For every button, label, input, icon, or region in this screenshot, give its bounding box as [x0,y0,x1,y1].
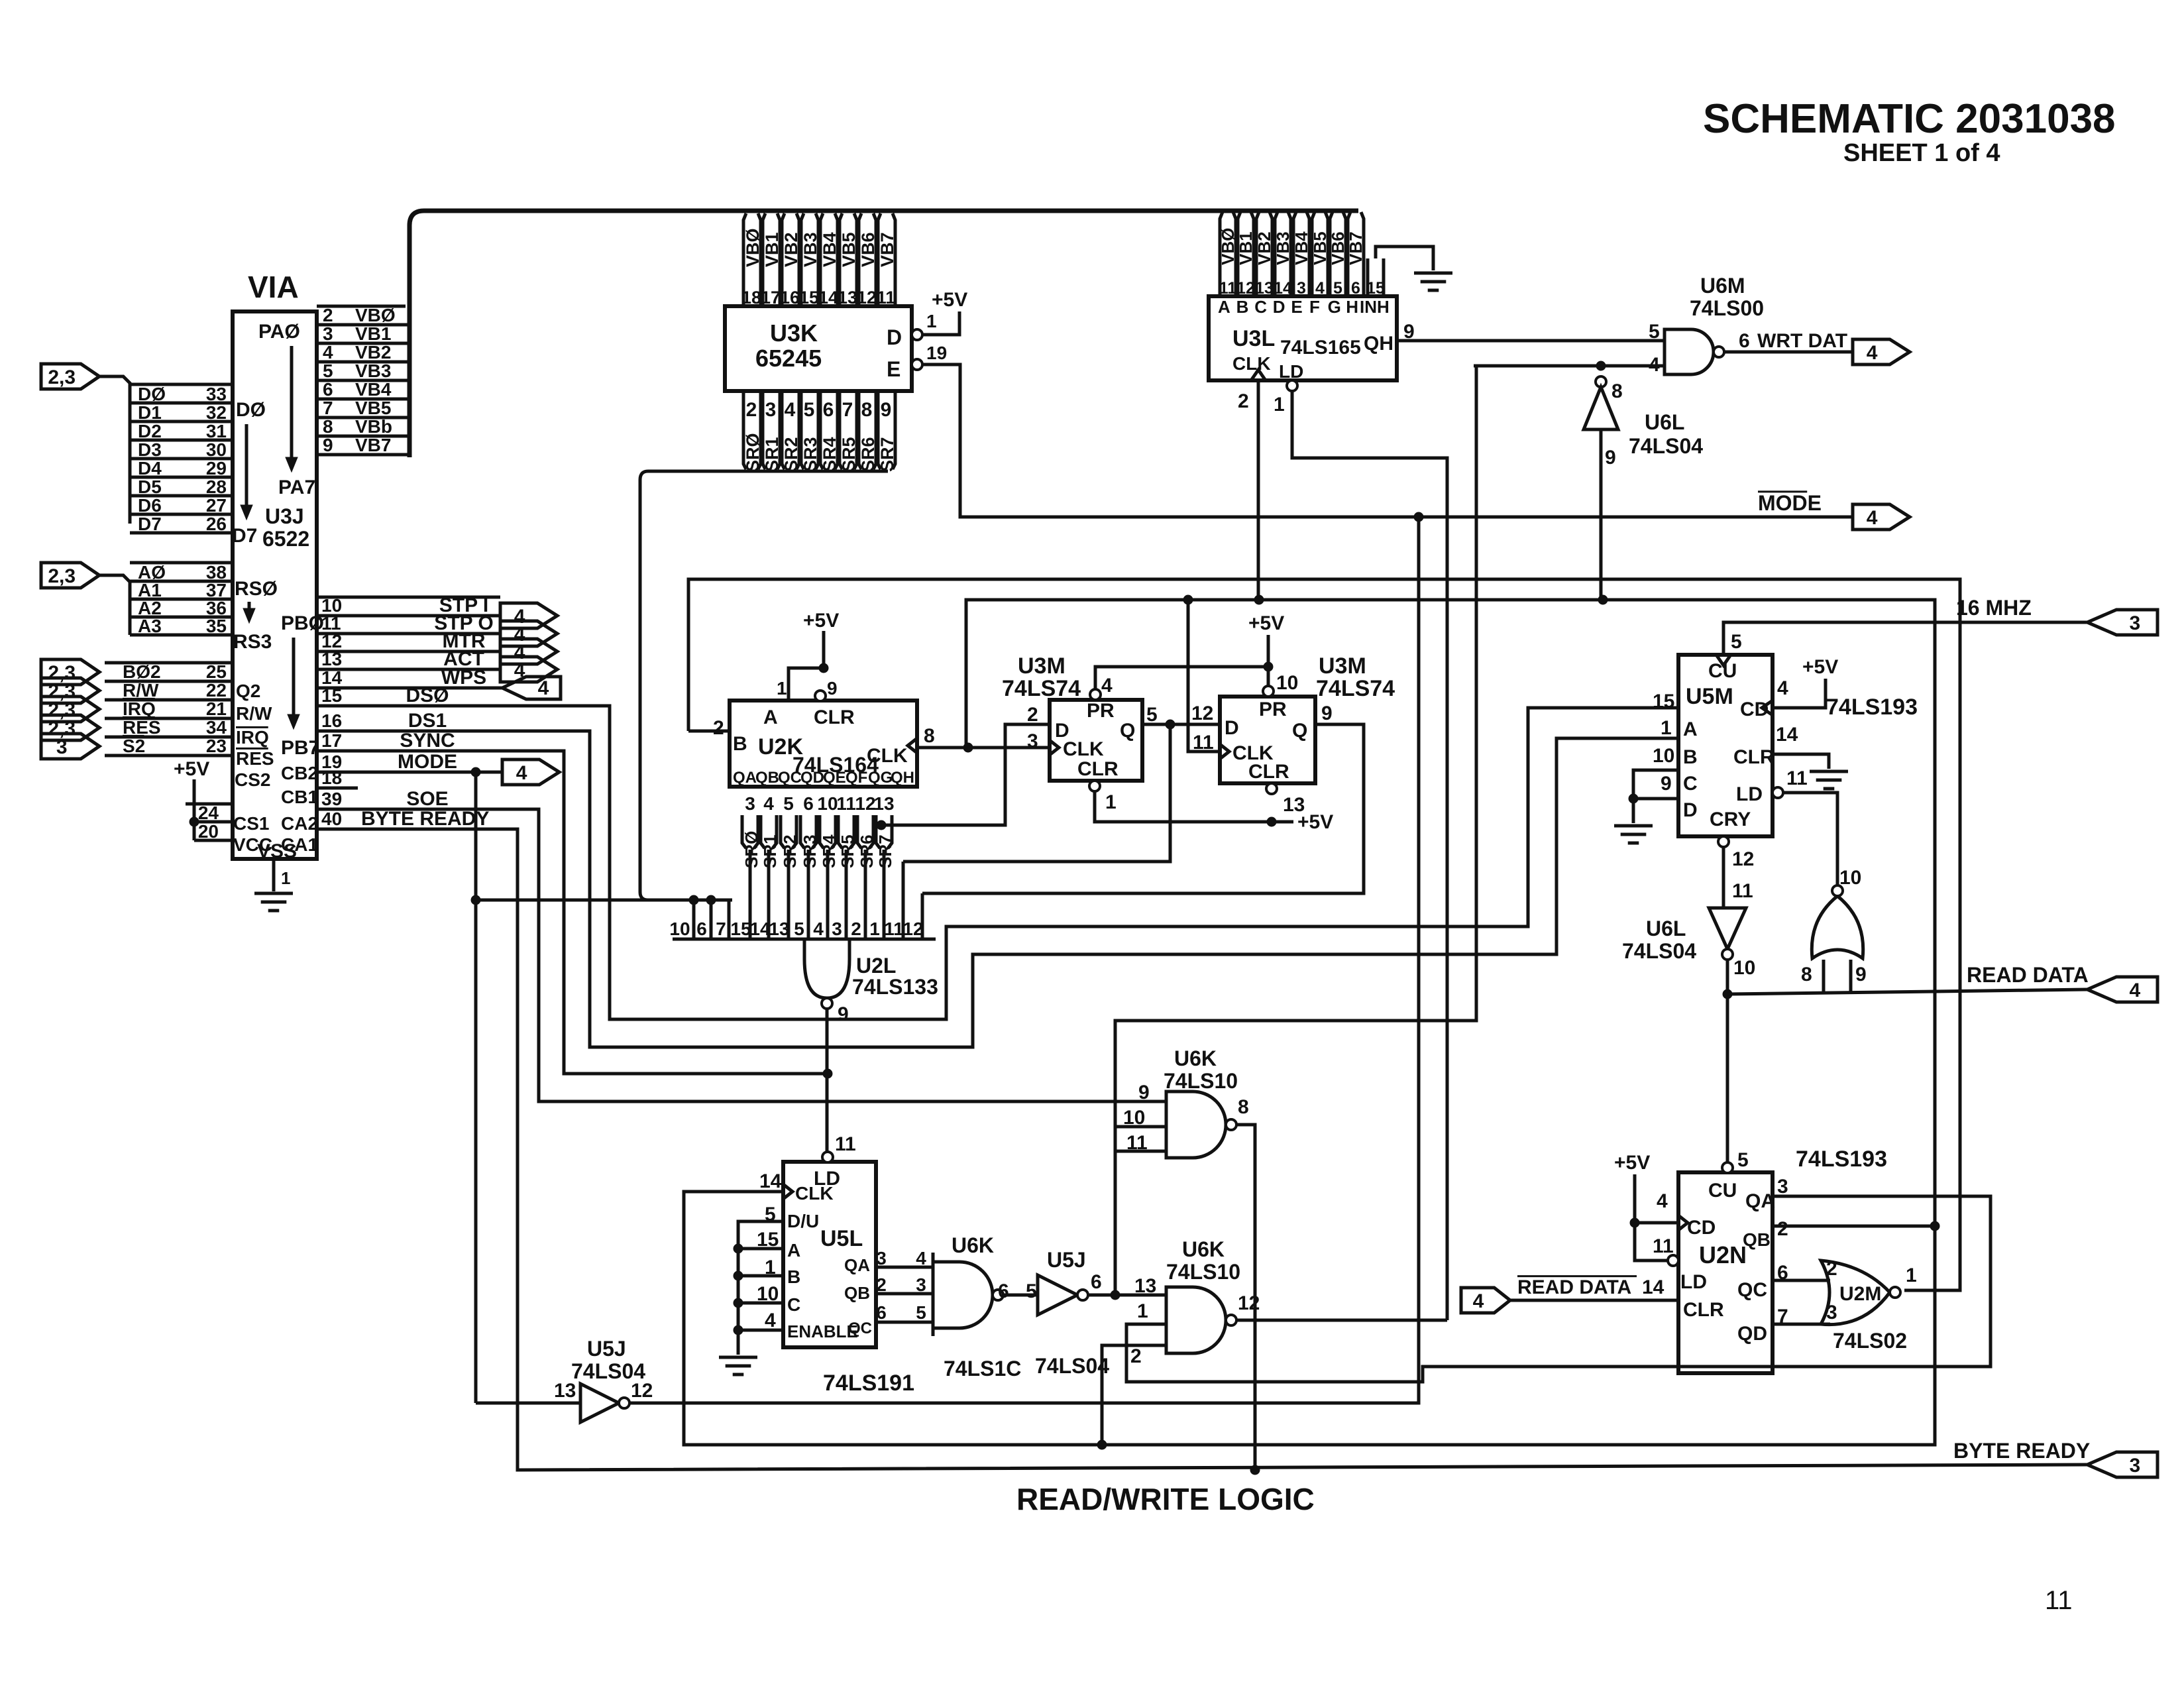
svg-text:25: 25 [206,661,227,682]
svg-text:20: 20 [198,821,219,842]
IC U3M 74LS74 FF2 [1220,697,1315,783]
svg-text:D: D [1683,799,1698,821]
svg-text:QB: QB [1743,1229,1771,1250]
svg-text:VB4: VB4 [820,232,840,267]
wire U6L-9 to CLK net [1600,429,1603,600]
svg-text:PR: PR [1259,699,1287,720]
svg-text:SR2: SR2 [781,437,801,472]
svg-text:7: 7 [716,919,726,939]
svg-text:U2M: U2M [1839,1283,1881,1305]
svg-text:5: 5 [794,919,804,939]
IC U2K 74LS164 [730,701,917,787]
svg-text:VB3: VB3 [800,232,820,267]
svg-text:A: A [763,706,778,728]
A bus lanes A0-A3 [130,561,233,565]
svg-text:9: 9 [838,1003,849,1025]
svg-text:VBØ: VBØ [1218,228,1238,265]
svg-text:+5V: +5V [1802,656,1838,678]
gate U6L 74LS04 inverter (up) [1596,376,1606,387]
U2L input pin row [673,938,936,941]
wire MODE from VIA with tag [317,771,502,774]
svg-text:CLK: CLK [795,1183,834,1204]
svg-text:WRT DAT: WRT DAT [1757,330,1847,352]
svg-text:R/W: R/W [123,680,159,701]
wire: VB bus top line [409,211,1358,457]
svg-text:2: 2 [323,305,333,325]
svg-text:Q2: Q2 [236,681,260,701]
svg-text:SHEET 1 of 4: SHEET 1 of 4 [1843,139,2000,167]
svg-text:CLR: CLR [1683,1299,1724,1321]
svg-text:QB: QB [844,1283,870,1303]
wire FF2 CLK from CLK net [1188,600,1220,752]
svg-text:5: 5 [1737,1149,1749,1171]
svg-text:14: 14 [1274,279,1292,298]
svg-text:7: 7 [323,398,333,418]
U3K bottom stubs SR0-SR7 [743,391,746,469]
svg-text:READ DATA: READ DATA [1517,1276,1631,1298]
svg-text:32: 32 [206,402,227,423]
svg-text:2: 2 [1027,704,1038,726]
svg-text:4: 4 [538,677,549,699]
net tag 2,3 (A bus) [41,563,99,588]
svg-text:34: 34 [206,717,227,738]
svg-text:CS1: CS1 [233,813,269,834]
svg-text:SR6: SR6 [858,437,878,472]
svg-text:5: 5 [1731,631,1742,653]
svg-text:6: 6 [1739,330,1750,352]
svg-text:13: 13 [554,1380,576,1402]
svg-text:INH: INH [1360,297,1390,317]
svg-text:13: 13 [873,793,894,814]
IC U3L 74LS165 [1209,296,1397,380]
svg-text:74LS74: 74LS74 [1002,676,1081,701]
svg-text:U6L: U6L [1646,917,1686,940]
svg-text:35: 35 [206,616,227,636]
svg-text:QB: QB [755,769,779,787]
svg-text:SR4: SR4 [820,437,840,472]
svg-text:U3M: U3M [1319,653,1366,679]
svg-text:RSØ: RSØ [235,578,278,600]
svg-text:VB4: VB4 [355,379,392,400]
svg-text:+5V: +5V [803,610,839,632]
svg-text:QA: QA [733,769,757,787]
svg-text:5: 5 [783,793,794,814]
svg-text:CS2: CS2 [235,769,270,790]
wires U2M inputs [1822,960,1826,994]
wire DS1 route to U5M B [317,731,1678,1047]
svg-text:E: E [1291,297,1302,317]
svg-text:9: 9 [1605,447,1616,469]
svg-text:DØ: DØ [138,384,166,404]
svg-text:14: 14 [818,288,838,308]
svg-text:5: 5 [1649,321,1660,343]
svg-text:VB4: VB4 [1291,231,1311,265]
svg-text:LD: LD [1680,1271,1707,1293]
svg-text:3: 3 [876,1248,887,1268]
svg-text:4: 4 [1473,1290,1484,1312]
svg-text:CU: CU [1708,1180,1737,1202]
svg-text:E: E [887,357,901,381]
svg-text:SYNC: SYNC [400,730,455,752]
svg-text:U6K: U6K [1174,1046,1217,1070]
svg-text:4: 4 [1101,675,1113,697]
svg-text:CLR: CLR [1077,758,1119,780]
svg-text:15: 15 [321,685,342,706]
svg-text:74LS191: 74LS191 [823,1371,914,1396]
svg-text:A: A [787,1240,800,1261]
svg-text:28: 28 [206,477,227,497]
svg-text:MODE: MODE [1758,491,1822,515]
svg-text:5: 5 [1333,279,1342,298]
svg-text:17: 17 [761,288,781,308]
svg-text:QD: QD [800,769,824,787]
svg-text:1: 1 [1137,1300,1148,1322]
svg-text:16: 16 [321,710,342,731]
svg-text:4: 4 [1657,1190,1668,1212]
wire net A (U2K B feedback) [688,579,1960,1290]
svg-text:4: 4 [763,793,774,814]
svg-text:17: 17 [321,730,342,751]
svg-text:VB5: VB5 [1310,231,1330,265]
svg-text:RS3: RS3 [233,631,272,653]
gate U2L 74LS133 [804,939,849,998]
IC U2N 74LS193 [1678,1172,1773,1373]
svg-text:30: 30 [206,439,227,460]
svg-text:Q: Q [1292,720,1307,742]
svg-text:D: D [1273,297,1285,317]
svg-text:MODE: MODE [398,751,457,773]
svg-text:QD: QD [1737,1323,1767,1345]
svg-text:QE: QE [823,769,846,787]
svg-text:9: 9 [881,399,892,421]
svg-text:5: 5 [1026,1280,1037,1302]
svg-text:PAØ: PAØ [258,321,300,343]
svg-text:6: 6 [803,793,814,814]
svg-text:D: D [887,325,902,349]
svg-text:SR3: SR3 [800,437,820,472]
svg-text:14: 14 [759,1170,782,1192]
svg-text:1: 1 [1906,1264,1917,1286]
svg-text:12: 12 [1732,848,1754,870]
svg-text:18: 18 [741,288,761,308]
svg-text:74LS133: 74LS133 [852,975,938,999]
svg-text:2: 2 [713,717,724,739]
svg-text:VB5: VB5 [355,398,391,418]
svg-text:11: 11 [836,793,856,814]
svg-text:PB7: PB7 [281,737,319,759]
svg-text:SR7: SR7 [875,834,895,868]
svg-text:3: 3 [1027,730,1038,752]
svg-text:6: 6 [323,379,333,400]
svg-text:PA7: PA7 [278,477,315,498]
svg-text:8: 8 [861,399,873,421]
svg-text:QC: QC [1737,1279,1767,1301]
svg-text:U2L: U2L [856,954,896,978]
svg-text:8: 8 [323,416,333,437]
svg-text:IRQ: IRQ [123,699,156,719]
svg-text:VSS: VSS [257,840,297,862]
U3L top stubs VB0-VB7 [1220,212,1223,296]
wire +5V to PR pins [1264,662,1273,671]
svg-text:D5: D5 [138,477,162,497]
svg-text:1: 1 [1105,791,1117,813]
gate U2M 74LS02 NOR (up) [1812,896,1863,958]
svg-text:3: 3 [745,793,755,814]
svg-text:9: 9 [1321,702,1333,724]
svg-text:3: 3 [1777,1176,1788,1198]
svg-text:VB3: VB3 [355,361,391,381]
svg-text:6: 6 [1091,1271,1102,1293]
svg-text:4: 4 [2130,980,2141,1001]
svg-text:13: 13 [1283,794,1305,816]
svg-text:F: F [1309,297,1320,317]
svg-text:VB2: VB2 [355,342,391,363]
svg-text:SR5: SR5 [838,834,857,868]
svg-text:Q: Q [1120,720,1135,742]
svg-text:8: 8 [1611,380,1623,402]
svg-text:SR7: SR7 [877,437,897,472]
wire U6M out WRT DAT [1724,351,1853,354]
svg-text:2: 2 [746,399,757,421]
svg-text:6: 6 [998,1280,1009,1302]
svg-text:LD: LD [1736,783,1763,805]
svg-text:16 MHZ: 16 MHZ [1956,596,2032,620]
svg-text:10: 10 [1653,745,1674,767]
svg-text:D1: D1 [138,402,162,423]
svg-text:11: 11 [1732,880,1753,902]
svg-text:U6L: U6L [1645,410,1684,434]
wire U6K-2 input [1102,1345,1166,1445]
svg-text:D7: D7 [138,514,162,534]
svg-text:IRQ: IRQ [236,727,269,748]
svg-text:3: 3 [1297,279,1306,298]
VIA port B lanes [317,596,500,599]
svg-text:2: 2 [876,1274,887,1295]
wire U5J-B out to MODE junction [629,517,1419,1403]
svg-text:VB1: VB1 [355,323,391,344]
svg-text:16: 16 [780,288,800,308]
svg-text:C: C [1683,773,1698,795]
svg-text:74LS02: 74LS02 [1833,1329,1907,1353]
svg-text:13: 13 [1255,279,1274,298]
svg-text:+5V: +5V [1248,612,1284,634]
svg-text:+5V: +5V [174,758,209,780]
svg-text:B: B [1236,297,1249,317]
wire DS0 route to U5M A [317,706,1678,1019]
wire QC to U2M in2 [1773,1279,1830,1282]
svg-text:12: 12 [1238,1292,1260,1314]
svg-text:VB5: VB5 [839,232,859,267]
svg-text:SR3: SR3 [800,834,820,868]
svg-text:QC: QC [778,769,802,787]
svg-text:SRØ: SRØ [741,831,761,868]
svg-text:4: 4 [813,919,824,939]
svg-text:9: 9 [827,678,838,699]
svg-text:19: 19 [926,343,947,363]
svg-text:8: 8 [1801,964,1812,985]
svg-text:12: 12 [631,1380,653,1402]
svg-text:SR2: SR2 [780,834,800,868]
svg-text:3: 3 [2130,1455,2141,1477]
svg-text:U2N: U2N [1699,1241,1747,1268]
svg-text:6: 6 [1351,279,1360,298]
PA0-PA7 arrow [290,346,294,464]
svg-text:LD: LD [1279,361,1303,382]
svg-text:74LS04: 74LS04 [1035,1354,1109,1378]
svg-text:6522: 6522 [262,527,309,551]
svg-text:CU: CU [1708,660,1737,682]
svg-text:D: D [1225,717,1239,739]
svg-text:VB6: VB6 [858,232,878,267]
svg-text:29: 29 [206,458,227,478]
svg-text:10: 10 [1733,957,1755,979]
svg-text:9: 9 [1138,1082,1150,1103]
wire U2L input bus line [476,899,732,902]
svg-text:D7: D7 [232,525,257,547]
svg-text:7: 7 [842,399,853,421]
svg-text:SR4: SR4 [819,834,839,868]
svg-text:ENABLE: ENABLE [787,1321,858,1341]
svg-text:31: 31 [206,421,227,441]
svg-text:39: 39 [321,789,342,809]
svg-text:CB2: CB2 [281,763,318,783]
svg-text:READ DATA: READ DATA [1967,963,2089,987]
wire SR bus under U3K [640,471,888,900]
svg-text:VB7: VB7 [1346,231,1366,265]
D bus lanes D0-D7 [130,383,233,386]
svg-text:BYTE READY: BYTE READY [361,808,489,830]
svg-text:C: C [787,1294,800,1315]
svg-text:10: 10 [669,919,690,939]
svg-text:12: 12 [855,793,875,814]
svg-text:12: 12 [857,288,877,308]
svg-text:VIA: VIA [248,270,299,304]
svg-text:6: 6 [876,1302,887,1323]
svg-text:CB1: CB1 [281,787,318,807]
svg-text:H: H [1346,297,1358,317]
IC U5M 74LS193 [1678,655,1773,836]
wire SOE route to U6K pin9 [317,809,1166,1101]
svg-text:13: 13 [321,649,342,669]
svg-text:1: 1 [1274,394,1285,416]
svg-text:U5L: U5L [820,1226,863,1251]
svg-text:4: 4 [765,1310,776,1331]
wire: D bus entry [99,376,130,524]
svg-text:DØ: DØ [236,399,266,421]
svg-text:12: 12 [1236,279,1255,298]
svg-text:15: 15 [1366,279,1385,298]
svg-text:QH: QH [1364,333,1393,355]
svg-text:13: 13 [838,288,857,308]
svg-text:9: 9 [1661,773,1672,795]
svg-text:VBb: VBb [355,416,392,437]
svg-text:3: 3 [56,736,68,758]
svg-text:QA: QA [844,1255,870,1275]
svg-text:11: 11 [1786,767,1808,789]
svg-text:74LS74: 74LS74 [1316,676,1395,701]
svg-text:74LS1C: 74LS1C [944,1357,1021,1380]
svg-text:74LS165: 74LS165 [1280,337,1361,359]
svg-text:3: 3 [2130,612,2141,634]
svg-text:22: 22 [206,680,227,701]
svg-text:PR: PR [1087,700,1115,722]
svg-text:4: 4 [1867,507,1878,529]
svg-text:DS1: DS1 [408,710,447,732]
svg-text:5: 5 [916,1302,926,1323]
svg-text:33: 33 [206,384,227,404]
svg-text:A3: A3 [138,616,162,636]
svg-text:VB7: VB7 [877,232,897,267]
control signal lanes B02 R/W IRQ RES S2 [105,661,233,665]
svg-text:1: 1 [1661,717,1672,739]
svg-text:U5J: U5J [1047,1248,1086,1272]
svg-text:9: 9 [1855,964,1867,985]
gate U2M 74LS02 NOR (right) [1821,1261,1890,1325]
MODE out tag [1414,512,1423,522]
svg-text:1: 1 [281,868,290,888]
svg-text:U3J: U3J [265,504,304,528]
svg-text:SR1: SR1 [760,834,780,868]
svg-text:14: 14 [749,919,771,939]
svg-text:1: 1 [869,919,880,939]
svg-text:11: 11 [835,1133,856,1155]
svg-text:2: 2 [1238,390,1249,412]
svg-text:VB7: VB7 [355,435,391,455]
svg-text:D4: D4 [138,458,162,478]
svg-text:21: 21 [206,699,227,719]
svg-text:RES: RES [123,717,161,738]
wire U2L out to U5L LD [826,1009,829,1153]
svg-text:QA: QA [1745,1190,1775,1212]
svg-text:D2: D2 [138,421,162,441]
svg-text:13: 13 [1134,1275,1156,1297]
svg-text:+5V: +5V [932,289,967,311]
U3L CLK pin2 wire [1251,370,1266,380]
svg-text:27: 27 [206,495,227,516]
svg-text:CLR: CLR [814,706,855,728]
svg-text:VB1: VB1 [1236,231,1256,265]
svg-text:A: A [1218,297,1230,317]
wire MODE vertical down to U5J-B [474,772,478,1403]
svg-text:2: 2 [1130,1345,1142,1367]
wire QD to U2M in3 [1773,1323,1830,1326]
svg-text:11: 11 [877,288,896,308]
svg-text:D/U: D/U [787,1211,819,1231]
svg-text:G: G [1328,297,1341,317]
svg-text:U6K: U6K [952,1233,994,1257]
svg-text:11: 11 [1219,279,1237,298]
svg-text:CLK: CLK [867,745,908,767]
svg-text:5: 5 [323,361,333,381]
svg-text:4: 4 [1315,279,1325,298]
svg-text:U3K: U3K [770,319,818,347]
svg-text:40: 40 [321,809,342,829]
svg-text:74LS193: 74LS193 [1796,1147,1887,1172]
svg-text:65245: 65245 [755,345,822,372]
wire 16 MHZ input [1723,622,2087,653]
U5L input bracket grounded [738,1221,783,1355]
svg-text:CRY: CRY [1710,809,1751,830]
svg-text:VB6: VB6 [1328,231,1348,265]
svg-text:15: 15 [1653,691,1674,712]
svg-text:1: 1 [777,678,787,699]
svg-text:BØ2: BØ2 [123,661,161,682]
svg-text:CLR: CLR [1248,761,1289,783]
wire U6K-top output to BYTE READY [1236,1125,1255,1470]
wire FF1 CLR to +5V line [1095,791,1272,822]
svg-text:2: 2 [1777,1218,1788,1240]
svg-text:2: 2 [851,919,861,939]
